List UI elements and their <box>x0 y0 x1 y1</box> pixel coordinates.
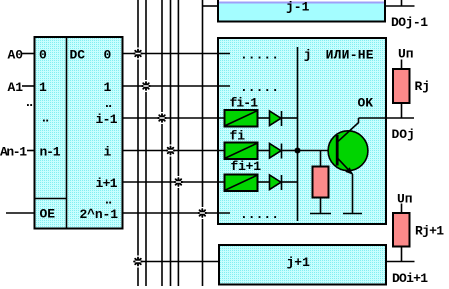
svg-text:DOj-1: DOj-1 <box>391 15 428 30</box>
svg-text:..: .. <box>40 111 51 126</box>
svg-text:i: i <box>104 144 112 159</box>
svg-text:A1: A1 <box>8 80 24 95</box>
svg-text:DOi+1: DOi+1 <box>392 271 428 286</box>
svg-text:OK: OK <box>358 95 374 110</box>
svg-text:fi-1: fi-1 <box>230 96 259 111</box>
svg-text:Rj: Rj <box>415 79 431 94</box>
svg-text:i-1: i-1 <box>96 112 118 127</box>
svg-text:DC: DC <box>70 47 86 62</box>
svg-text:j+1: j+1 <box>287 255 311 270</box>
svg-text:OE: OE <box>40 207 56 222</box>
svg-text:.....: ..... <box>240 47 279 62</box>
svg-text:DOj: DOj <box>392 127 415 142</box>
svg-text:i+1: i+1 <box>96 176 118 191</box>
svg-text:..: .. <box>103 192 114 207</box>
svg-text:1: 1 <box>39 80 47 95</box>
svg-text:An-1: An-1 <box>0 144 27 159</box>
svg-text:2^n-1: 2^n-1 <box>80 207 119 222</box>
svg-text:j: j <box>304 47 312 62</box>
svg-text:..: .. <box>103 96 114 111</box>
svg-text:Uп: Uп <box>397 192 413 207</box>
svg-text:fi: fi <box>230 128 246 143</box>
svg-text:fi+1: fi+1 <box>231 159 262 174</box>
svg-text:j-1: j-1 <box>286 0 310 15</box>
svg-text:ИЛИ-НЕ: ИЛИ-НЕ <box>326 47 374 62</box>
svg-text:Uп: Uп <box>398 47 414 62</box>
svg-text:0: 0 <box>104 47 112 62</box>
svg-text:0: 0 <box>39 47 47 62</box>
svg-text:n-1: n-1 <box>40 144 61 159</box>
svg-text:.....: ..... <box>240 207 279 222</box>
svg-text:A0: A0 <box>8 47 24 62</box>
svg-text:..: .. <box>24 95 35 110</box>
svg-text:.....: ..... <box>240 80 279 95</box>
svg-text:1: 1 <box>104 80 112 95</box>
svg-text:Rj+1: Rj+1 <box>415 223 444 238</box>
